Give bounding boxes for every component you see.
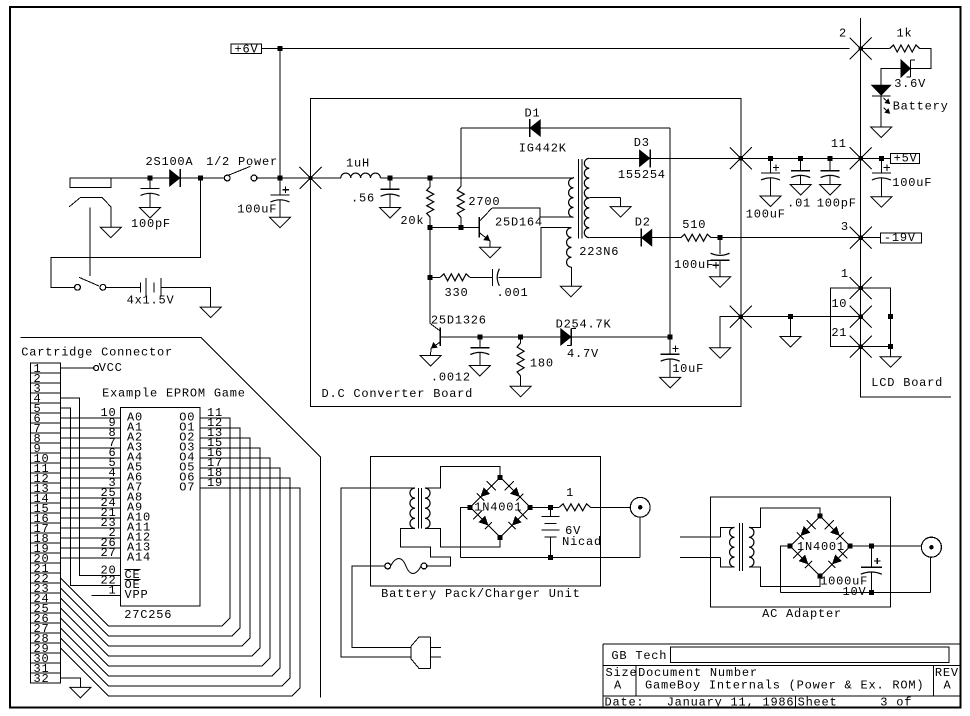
wire rail to transformer primary <box>390 177 573 179</box>
wire 1k to zener <box>911 49 931 69</box>
plug prong 2 <box>431 656 441 658</box>
wire pin 9 to A3 <box>60 447 120 449</box>
svg-text:510: 510 <box>682 218 706 232</box>
node bridge top <box>498 475 503 480</box>
node input cap junction <box>148 176 153 181</box>
AC adapter box <box>710 497 890 607</box>
ground LCD <box>880 357 901 368</box>
port X on converter edge +5V <box>730 147 752 169</box>
diode bridge top-left <box>480 487 490 497</box>
svg-text:1N4001: 1N4001 <box>474 501 522 515</box>
wire input to primary bottom <box>720 557 734 567</box>
ground converter LCD X <box>710 348 731 359</box>
wire pin 18 to A12 <box>60 537 120 539</box>
ground 223N6 <box>560 286 581 297</box>
diode bridge top-left <box>800 526 810 536</box>
svg-text:1uH: 1uH <box>346 157 370 171</box>
LCD connector box <box>831 288 891 347</box>
capacitor C .001 <box>491 269 493 286</box>
svg-text:.01: .01 <box>787 197 811 211</box>
node bridge bottom <box>818 574 823 579</box>
node LCD pin21 right <box>888 344 893 349</box>
wire Q1 collector to primary bottom <box>492 208 573 217</box>
node +6V junction <box>277 46 282 51</box>
transformer T2 primary <box>410 488 415 528</box>
wire pin2 to 1k <box>861 48 890 50</box>
svg-text:January 11, 1986: January 11, 1986 <box>667 695 795 709</box>
svg-text:+5V: +5V <box>894 152 918 166</box>
svg-text:IG442K: IG442K <box>519 142 567 156</box>
transformer T2 secondary <box>425 488 430 528</box>
node bridge left <box>788 544 793 549</box>
AC plug <box>411 637 431 669</box>
svg-text:100pF: 100pF <box>817 197 857 211</box>
connector adapter jack <box>921 537 941 557</box>
node .01 cap <box>798 156 803 161</box>
diode bridge bottom-right <box>512 516 522 526</box>
node bridge left <box>468 505 473 510</box>
svg-text:AC Adapter: AC Adapter <box>762 607 842 621</box>
svg-text:Battery: Battery <box>893 100 949 114</box>
wire O4 to pin 26 <box>60 458 270 666</box>
wire pin 15 to A9 <box>60 507 120 509</box>
wire LCD drive row <box>741 316 861 318</box>
ground 10uF <box>660 377 681 388</box>
svg-text:Nicad: Nicad <box>562 535 602 549</box>
svg-text:VCC: VCC <box>99 361 123 375</box>
svg-text:-19V: -19V <box>884 231 916 245</box>
title block document number box <box>671 647 950 662</box>
svg-text:10: 10 <box>831 297 847 311</box>
ground 100uF filter <box>270 217 291 228</box>
wire pin 11 to A5 <box>60 467 120 469</box>
power label +6V <box>231 44 262 54</box>
resistor R 2700 <box>457 187 464 218</box>
svg-text:LCD Board: LCD Board <box>871 376 943 390</box>
node +5V cap <box>879 156 884 161</box>
ground jack sleeve <box>100 227 121 238</box>
wire bridge2 plus to jack <box>850 545 921 547</box>
bridge rectifier edges <box>470 477 500 507</box>
wire D1 anode row <box>461 127 529 129</box>
transformer T3 core <box>739 523 741 571</box>
wire top rail +6V to pin 2 X <box>280 48 850 50</box>
svg-text:A: A <box>944 679 952 693</box>
LED arrow 2 <box>884 108 890 113</box>
wire switch to filter junction <box>257 177 311 179</box>
wire VPP stub <box>91 595 120 597</box>
svg-text:D254.7K: D254.7K <box>556 318 612 332</box>
wire O2 to pin 24 <box>60 438 250 646</box>
node .0012 cap <box>477 334 482 339</box>
node 100pF cap <box>828 156 833 161</box>
resistor R 1k <box>890 45 920 52</box>
node 1000uF top <box>869 544 874 549</box>
inductor feedback 223N6 <box>567 228 572 268</box>
ground 180 <box>510 386 531 397</box>
svg-text:20k: 20k <box>400 214 424 228</box>
battery pack box <box>370 457 600 586</box>
svg-text:100pF: 100pF <box>131 217 171 231</box>
wire secondary top to bridge 2 <box>749 508 820 528</box>
svg-text:330: 330 <box>445 286 469 300</box>
node battery tap junction <box>198 176 203 181</box>
node 330 row <box>428 275 433 280</box>
cartridge outline <box>20 338 320 698</box>
ground -19V cap <box>710 277 731 288</box>
wire pin 12 to A6 <box>60 477 120 479</box>
jack switched contact <box>89 208 91 276</box>
jack sleeve contact <box>69 197 111 227</box>
capacitor 10uF output <box>669 337 671 354</box>
wire secondary center tap <box>589 197 620 199</box>
ground cartridge <box>70 687 91 698</box>
title block frame <box>602 644 604 708</box>
wire adapter bottom row <box>781 591 931 593</box>
ground 100pF rail <box>820 185 841 196</box>
wire .001 to feedback coil <box>499 228 571 278</box>
node LCD pin10 right <box>888 314 893 319</box>
wire converter output row <box>440 336 670 338</box>
wire ground tap stem <box>790 317 792 337</box>
power label -19V <box>880 233 921 243</box>
node 1000uF bottom <box>869 590 874 595</box>
ground LCD row tap <box>780 337 801 348</box>
svg-text:1N4001: 1N4001 <box>797 540 845 554</box>
svg-text:Example EPROM Game: Example EPROM Game <box>102 387 246 401</box>
wire switch to battery <box>106 286 141 288</box>
resistor R 330 <box>430 276 440 278</box>
diode bridge top-right <box>510 487 520 497</box>
wire D1 right vertical down to output row <box>669 128 671 337</box>
diode D1 vertical feed <box>460 128 462 187</box>
ground Q2 emitter <box>420 356 441 367</box>
wire pin 8 to A2 <box>60 437 120 439</box>
diode bridge bottom-left <box>799 555 809 565</box>
svg-text:D3: D3 <box>634 136 650 150</box>
wire charger output row <box>460 557 640 559</box>
wire battery to ground <box>161 287 211 307</box>
svg-text:1: 1 <box>841 267 849 281</box>
wire bridge plus to resistor <box>530 506 559 508</box>
wire diode to switch <box>180 177 224 179</box>
node bridge bottom <box>498 535 503 540</box>
wire primary bottom staircase <box>400 528 450 566</box>
ground 100pF <box>140 208 161 219</box>
node bridge right <box>848 544 853 549</box>
title block rev column <box>933 666 935 696</box>
resistor R 180 <box>520 337 522 343</box>
wire D2 to 510 <box>652 237 681 239</box>
wire secondary bottom to D2 <box>589 237 641 239</box>
svg-text:1k: 1k <box>897 27 913 41</box>
wire input to primary top <box>720 527 734 536</box>
capacitor .56 <box>389 178 391 189</box>
svg-text:3: 3 <box>841 220 849 234</box>
wire pin 13 to A7 <box>60 487 120 489</box>
svg-text:2700: 2700 <box>468 195 500 209</box>
svg-text:10uF: 10uF <box>672 362 704 376</box>
zener D 3.6V <box>901 60 910 77</box>
wire 223N6 to ground <box>571 267 573 286</box>
svg-text:100uF: 100uF <box>892 176 932 190</box>
ground battery <box>200 307 221 318</box>
svg-text:25D1326: 25D1326 <box>431 314 487 328</box>
wire bridge minus to output row <box>460 507 470 557</box>
connector J1 DC jack center pin <box>70 178 111 188</box>
svg-text:155254: 155254 <box>618 168 666 182</box>
wire LED to ground <box>880 96 882 127</box>
wire inductor to node <box>380 177 390 179</box>
svg-text:1: 1 <box>109 584 117 598</box>
svg-text:A: A <box>614 679 622 693</box>
svg-text:2: 2 <box>839 27 847 41</box>
node filter cap junction <box>278 176 283 181</box>
port X on converter edge LCD drive <box>730 306 752 328</box>
node 10uF output <box>668 334 673 339</box>
node bridge top <box>818 514 823 519</box>
wire pin 10 to A4 <box>60 457 120 459</box>
ground 100uF +5V out <box>871 197 892 208</box>
AC input line 1 <box>680 536 720 538</box>
node 2700 bottom <box>459 225 464 230</box>
LCD board rail vertical <box>860 18 862 397</box>
wire X to converter ground <box>720 317 741 348</box>
wire 330 to .001 <box>470 276 493 278</box>
wire resistor to jack <box>591 506 631 508</box>
cord squiggle <box>391 559 422 574</box>
node LCD row ground tap <box>788 314 793 319</box>
bridge rectifier edges <box>790 516 820 546</box>
wire O0 to pin 22 <box>60 418 230 626</box>
svg-text:100uF: 100uF <box>746 208 786 222</box>
svg-text:D.C Converter Board: D.C Converter Board <box>322 387 474 401</box>
wire zener to LED <box>881 69 901 86</box>
D.C Converter Board box <box>311 99 742 407</box>
ground .56 cap <box>380 208 401 219</box>
resistor R 510 <box>681 234 711 241</box>
svg-text:180: 180 <box>530 357 554 371</box>
node battery plus <box>548 505 553 510</box>
node bridge right <box>528 505 533 510</box>
wire jack to 100pF node <box>111 177 150 179</box>
wire +6V vertical down to input rail <box>279 49 281 179</box>
wire pin1 to VCC <box>60 367 93 369</box>
svg-text:4.7V: 4.7V <box>567 347 599 361</box>
wire pin5 to OE <box>60 408 120 586</box>
port X input to converter <box>300 167 322 189</box>
inductor L1 1uH <box>341 173 381 178</box>
svg-text:Sheet: Sheet <box>798 695 838 709</box>
node L1 output <box>388 176 393 181</box>
IC U1 27C256 body <box>121 407 201 606</box>
svg-text:+6V: +6V <box>235 42 259 56</box>
wire LCD ground stem <box>890 347 892 357</box>
svg-text:Battery Pack/Charger Unit: Battery Pack/Charger Unit <box>381 587 581 601</box>
wire pin 7 to A1 <box>60 427 120 429</box>
wire pin 14 to A8 <box>60 497 120 499</box>
switch SW2 battery <box>75 284 81 290</box>
svg-text:4x1.5V: 4x1.5V <box>127 294 175 308</box>
svg-text:1/2 Power: 1/2 Power <box>206 155 278 169</box>
wire 510 to -19V node <box>711 237 741 239</box>
ground .0012 cap <box>469 366 490 377</box>
power label +5V <box>891 154 920 164</box>
capacitor 100pF rail <box>829 158 831 170</box>
node 180 top <box>518 334 523 339</box>
wire mains hot to primary <box>341 488 415 657</box>
ground 100uF +5V <box>760 196 781 207</box>
switch mains <box>421 563 427 569</box>
wire pin4 to CE <box>60 398 120 576</box>
capacitor C .0012 <box>479 337 481 348</box>
transformer T3 secondary <box>749 527 754 567</box>
svg-text:3.6V: 3.6V <box>894 77 926 91</box>
wire bottom row to jack 2 <box>930 557 932 592</box>
svg-text:25D164: 25D164 <box>495 216 543 230</box>
svg-text:GameBoy Internals (Power & Ex.: GameBoy Internals (Power & Ex. ROM) <box>645 679 924 693</box>
capacitor 100uF -19V reversed <box>719 238 721 254</box>
ground center tap <box>610 207 631 218</box>
wire to +5V label <box>861 157 891 159</box>
svg-text:A14: A14 <box>127 551 151 565</box>
svg-text:11: 11 <box>831 137 847 151</box>
svg-text:10V: 10V <box>843 585 867 599</box>
node 20k top <box>428 176 433 181</box>
connector P1 cartridge 32 pins <box>31 363 61 683</box>
svg-text:Date:: Date: <box>605 695 645 709</box>
battery BT1 4x1.5V <box>139 282 141 292</box>
svg-text:100uF: 100uF <box>237 203 277 217</box>
wire -19V rail to label <box>741 237 861 239</box>
svg-text:27: 27 <box>101 546 117 560</box>
svg-text:.56: .56 <box>351 192 375 206</box>
wire D1 to right vertical <box>540 127 670 129</box>
svg-text:O7: O7 <box>179 481 195 495</box>
ground LED <box>871 127 892 138</box>
wire pin 16 to A10 <box>60 517 120 519</box>
AC input line 2 <box>680 556 720 558</box>
wire secondary top to D3 <box>589 157 639 159</box>
connector charger jack <box>630 497 650 517</box>
capacitor 100uF input filter <box>279 178 281 195</box>
wire secondary bottom to bridge 2 <box>749 567 820 587</box>
wire O5 to pin 27 <box>60 468 280 676</box>
wire O6 to pin 28 <box>60 478 290 686</box>
capacitor 100uF +5V rail <box>770 158 772 173</box>
diode bridge top-right <box>830 526 840 536</box>
svg-text:Cartridge Connector: Cartridge Connector <box>21 346 173 360</box>
wire pin 6 to A0 <box>60 417 120 419</box>
svg-text:D1: D1 <box>525 107 541 121</box>
capacitor 100uF +5V out <box>880 158 882 173</box>
resistor R 20k <box>427 187 434 218</box>
plug prong 1 <box>431 646 441 648</box>
svg-text:1: 1 <box>566 486 574 500</box>
node 100uF +5V <box>768 156 773 161</box>
capacitor 100pF input <box>149 178 151 189</box>
svg-text:3 of: 3 of <box>880 695 912 709</box>
wire pin 20 to A14 <box>60 557 120 559</box>
resistor R 1 <box>559 504 590 511</box>
transformer T1 secondary <box>584 158 589 237</box>
wire row to jack <box>639 517 641 557</box>
capacitor 1000uF <box>870 546 872 567</box>
ground .01 <box>790 185 811 196</box>
svg-text:.001: .001 <box>497 286 529 300</box>
LCD board outline corner <box>861 347 952 398</box>
wire 20k junction down to 330 row <box>429 227 431 277</box>
node -19V cap <box>718 235 723 240</box>
ground Q1 emitter <box>480 247 501 257</box>
svg-text:GB Tech: GB Tech <box>611 649 667 663</box>
svg-text:D2: D2 <box>635 216 651 230</box>
svg-text:VPP: VPP <box>125 588 149 602</box>
wire +6V to junction <box>262 48 280 50</box>
node base row left <box>428 225 433 230</box>
diode bridge bottom-left <box>479 516 489 526</box>
wire pin32 to ground <box>60 678 80 687</box>
svg-text:100uF: 100uF <box>674 258 714 272</box>
transformer T1 core <box>578 159 580 238</box>
LED arrow 1 <box>884 98 890 103</box>
capacitor .01 <box>800 158 802 170</box>
wire secondary bottom to bridge <box>425 528 500 547</box>
wire O7 to pin 29 <box>60 488 300 696</box>
transformer T2 core <box>418 488 420 529</box>
svg-text:.0012: .0012 <box>431 371 471 385</box>
wire rail to inductor <box>311 177 341 179</box>
wire +5V rail <box>741 157 861 159</box>
svg-text:21: 21 <box>831 326 847 340</box>
wire base row <box>430 226 479 228</box>
LED Battery indicator <box>872 85 891 95</box>
wire switch to plug <box>352 566 411 647</box>
svg-text:2S100A: 2S100A <box>146 155 194 169</box>
wire D3 to +5V port <box>651 157 741 159</box>
wire pin 19 to A13 <box>60 547 120 549</box>
svg-text:27C256: 27C256 <box>124 608 172 622</box>
wire O3 to pin 25 <box>60 448 260 656</box>
wire secondary top to bridge <box>425 466 500 488</box>
node VCC <box>94 366 99 371</box>
battery pack loop wire <box>51 178 201 287</box>
transformer T1 primary <box>569 178 574 217</box>
battery BT2 6V Nicad <box>549 507 551 516</box>
transformer T3 primary <box>730 527 735 567</box>
wire O1 to pin 23 <box>60 428 240 636</box>
wire bridge2 minus to bottom row <box>781 546 791 592</box>
wire pin 17 to A11 <box>60 527 120 529</box>
title block size column <box>635 666 637 696</box>
svg-text:223N6: 223N6 <box>579 245 619 259</box>
diode bridge bottom-right <box>832 555 842 565</box>
svg-text:32: 32 <box>34 672 50 686</box>
node battery minus <box>548 555 553 560</box>
